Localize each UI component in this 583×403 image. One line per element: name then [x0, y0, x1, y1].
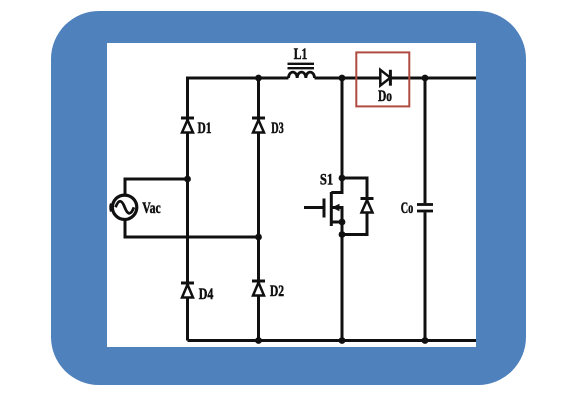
svg-text:S1: S1	[320, 172, 333, 189]
wire: Co leg	[424, 78, 427, 341]
svg-text:L1: L1	[294, 46, 308, 63]
wire: S1 source stub and leg	[331, 208, 342, 341]
node: bottom bus / D2 leg	[255, 337, 262, 344]
wire: D3/D2 bridge leg	[257, 78, 260, 341]
node: bottom bus / Co leg	[422, 337, 429, 344]
diode D2	[252, 281, 265, 296]
node: Vac top / left leg	[184, 176, 191, 183]
diode D1	[181, 118, 194, 133]
node: top bus / Co leg	[422, 75, 429, 82]
svg-text:D2: D2	[270, 283, 284, 300]
wire: body diode branch	[342, 178, 367, 235]
wire: Vac top lead	[125, 179, 188, 196]
svg-text:Vac: Vac	[142, 200, 161, 217]
red highlight box around Do	[356, 52, 409, 106]
wire: S1 drain leg	[331, 78, 342, 193]
wire: top bus Do to right edge	[391, 77, 477, 80]
diode D4	[181, 283, 194, 298]
node: S1 drain / diode branch	[339, 175, 346, 182]
svg-text:Co: Co	[401, 200, 414, 217]
node: bottom bus / S1 leg	[339, 337, 346, 344]
node: S1 source stub	[339, 219, 346, 226]
diode Do	[380, 70, 390, 86]
AC source Vac	[111, 195, 137, 219]
transistor S1 (MOSFET)	[324, 192, 340, 226]
inductor L1	[288, 64, 315, 78]
wire: top bus L1 to Do	[315, 77, 381, 80]
wire: Vac bottom lead	[125, 219, 259, 237]
wire: gate lead	[304, 206, 324, 209]
node: Vac bottom / D3 leg	[255, 234, 262, 241]
svg-text:D4: D4	[199, 286, 214, 303]
node: top bus / D3 leg	[255, 75, 262, 82]
wire: left bridge leg + top bus to L1	[188, 78, 289, 341]
node: S1 source / diode branch	[339, 231, 346, 238]
svg-text:Do: Do	[378, 88, 392, 105]
body diode of S1	[361, 199, 374, 213]
capacitor Co	[417, 205, 433, 212]
diode D3	[252, 118, 265, 133]
svg-text:D1: D1	[198, 120, 212, 137]
svg-text:D3: D3	[271, 120, 284, 137]
wire: bottom bus	[188, 339, 477, 342]
node: top bus / S1 leg	[339, 75, 346, 82]
